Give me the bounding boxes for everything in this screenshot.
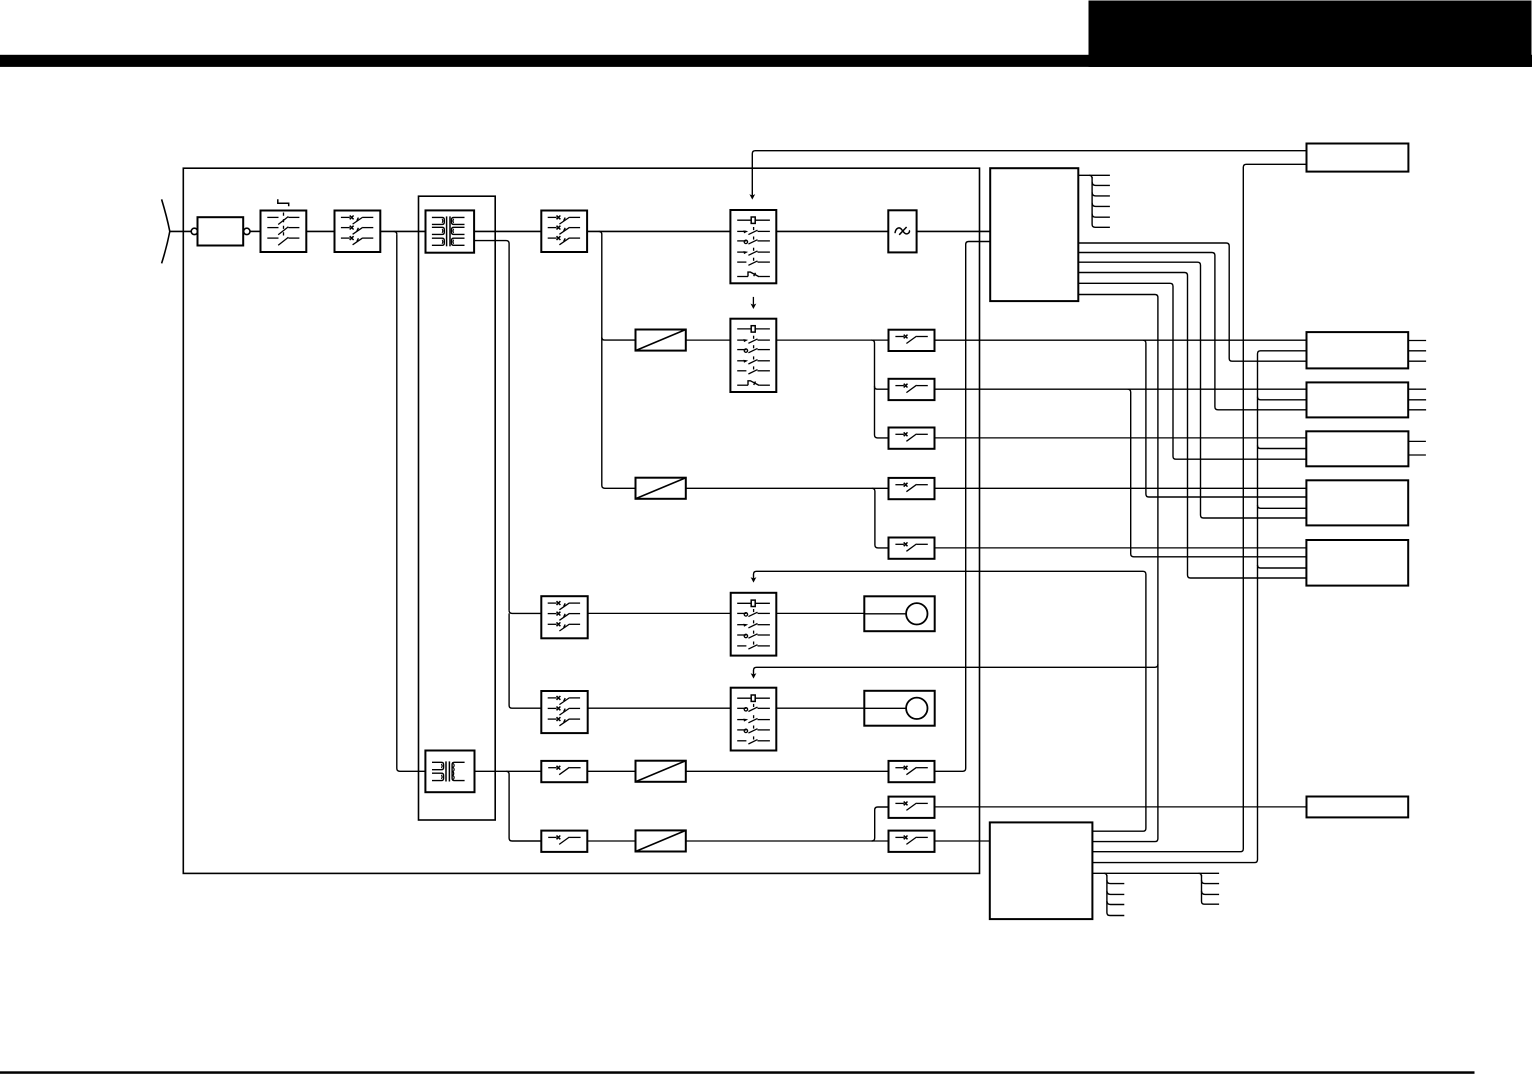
wire — [686, 770, 889, 772]
switch-disconnector Q11 — [541, 691, 587, 733]
coupling node a1 — [191, 228, 197, 234]
wire — [935, 242, 991, 772]
terminal box X11 — [1307, 332, 1427, 368]
wire — [917, 230, 991, 232]
arrow — [751, 577, 757, 583]
arrow — [751, 673, 757, 679]
rectifier V1 — [636, 330, 686, 351]
switch Q16 — [889, 831, 935, 852]
wire — [380, 230, 425, 232]
wire — [475, 770, 542, 772]
terminal box X15 — [1306, 540, 1408, 586]
wire — [1258, 565, 1307, 568]
controller connector X2 — [1104, 873, 1124, 915]
wire — [686, 840, 889, 842]
wire — [474, 241, 509, 611]
wire — [776, 230, 888, 232]
switch-disconnector Q3 — [541, 211, 587, 253]
terminal box X10 (grid feeder) — [1307, 144, 1409, 172]
black header bar — [0, 55, 1532, 67]
wire — [587, 230, 730, 232]
switch-disconnector Q2 — [335, 211, 381, 253]
switch Q8 — [889, 538, 935, 559]
motor M1 — [864, 596, 934, 631]
switch Q15 — [889, 797, 935, 818]
wire — [1092, 872, 1219, 874]
main transformer T1 — [426, 210, 475, 252]
terminal box X13 — [1306, 431, 1426, 466]
converter U1 — [888, 210, 916, 252]
wire — [1078, 273, 1306, 579]
switch Q6 — [889, 428, 935, 449]
rectifier V3 — [636, 761, 686, 782]
terminal box X12 — [1307, 382, 1427, 417]
wire — [1092, 351, 1306, 863]
auxiliary transformer T2 — [425, 751, 474, 793]
coupling node a2 — [244, 228, 250, 234]
wire row4 — [935, 487, 1307, 489]
control arrow wire — [754, 571, 1146, 831]
wire — [776, 707, 864, 709]
contactor K10 — [731, 593, 777, 656]
wire row3 — [935, 437, 1307, 439]
wire — [935, 806, 1307, 808]
contactor K11 — [731, 688, 777, 751]
wire — [1258, 397, 1307, 400]
switch Q12 — [541, 761, 587, 782]
arrow — [751, 297, 757, 309]
switch Q13 — [889, 761, 935, 782]
control arrow wire — [752, 151, 1306, 196]
wire — [599, 231, 636, 488]
switch Q14 — [541, 831, 587, 852]
wire — [1078, 253, 1306, 410]
rectifier V4 — [636, 830, 686, 851]
wire row5 — [935, 547, 1307, 549]
transformer compartment frame — [419, 196, 496, 820]
wire — [1092, 164, 1306, 851]
generator G1 — [198, 217, 244, 245]
switch Q4 — [889, 330, 935, 351]
wire — [1078, 283, 1306, 459]
wire — [509, 610, 541, 708]
wire — [506, 771, 541, 841]
switch-disconnector Q10 — [541, 596, 587, 638]
wire — [1128, 389, 1307, 557]
wire — [1258, 446, 1307, 449]
junction — [872, 340, 889, 438]
wire — [1258, 505, 1307, 508]
wire — [250, 230, 261, 232]
wire row2 — [935, 388, 1307, 390]
wire — [474, 230, 541, 232]
motor M2 — [864, 691, 934, 726]
rectifier V2 — [636, 478, 686, 499]
wire — [776, 339, 888, 341]
arrow — [749, 194, 755, 200]
controller connector X3 — [1199, 873, 1220, 904]
switch Q7 — [889, 478, 935, 499]
terminal box X14 — [1306, 480, 1408, 525]
enclosure frame (nacelle boundary) — [183, 168, 979, 873]
wire — [394, 231, 426, 771]
controller I/O connector X1 — [1078, 175, 1110, 227]
main controller A1 — [990, 168, 1078, 301]
wire — [935, 840, 990, 842]
wire — [587, 840, 635, 842]
wire — [587, 770, 635, 772]
wire — [686, 487, 889, 489]
switch Q5 — [889, 379, 935, 400]
wind turbine rotor W1 — [162, 199, 192, 263]
wire — [1143, 340, 1307, 497]
wire — [588, 612, 731, 614]
wire — [588, 707, 731, 709]
terminal box X16 — [1307, 797, 1409, 818]
auxiliary controller A2 — [990, 822, 1093, 919]
wire row1 — [935, 339, 1307, 341]
wire — [1078, 262, 1306, 518]
wire — [306, 230, 334, 232]
wire — [686, 339, 731, 341]
circuit breaker Q1 — [261, 199, 307, 252]
junction — [872, 807, 889, 841]
control arrow wire — [754, 664, 1158, 674]
contactor K2 — [730, 319, 776, 392]
wire — [1078, 295, 1158, 842]
contactor K1 — [730, 210, 776, 283]
junction — [872, 488, 889, 548]
wire — [776, 612, 864, 614]
black header block — [1089, 1, 1532, 67]
bottom rule — [0, 1071, 1475, 1074]
wire — [1078, 243, 1306, 361]
